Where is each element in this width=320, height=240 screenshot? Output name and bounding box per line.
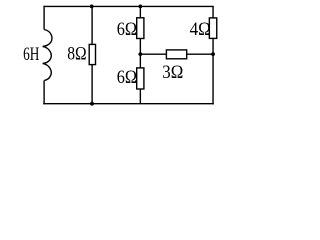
resistor R 3-ohm body — [166, 50, 186, 59]
svg-text:6Ω: 6Ω — [117, 19, 137, 40]
wire 8-ohm branch top — [91, 6, 93, 44]
svg-text:8Ω: 8Ω — [67, 44, 86, 65]
wire top rail — [43, 5, 213, 7]
wire 6-ohm branch bottom — [139, 89, 141, 104]
junction dot top at 8-ohm branch — [90, 5, 94, 9]
wire left branch top — [43, 6, 45, 30]
resistor R 4-ohm body — [209, 18, 216, 39]
wire left branch bottom — [43, 80, 45, 104]
junction dot bottom at 8-ohm branch — [90, 102, 94, 106]
wire middle rail right stub — [187, 53, 213, 55]
svg-text:4Ω: 4Ω — [190, 19, 211, 40]
svg-text:3Ω: 3Ω — [162, 62, 183, 83]
wire right rail bottom — [212, 38, 214, 104]
inductor 6H — [43, 30, 52, 81]
wire bottom rail — [43, 103, 214, 105]
wire 6-ohm branch top — [139, 6, 141, 17]
junction dot top at 6-ohm branch — [138, 5, 142, 9]
wire 6-ohm branch middle — [139, 39, 141, 68]
wire 8-ohm branch bottom — [91, 65, 93, 104]
svg-text:6H: 6H — [23, 44, 39, 65]
junction dot middle at right rail — [211, 52, 215, 56]
wire right rail top — [212, 6, 214, 18]
svg-text:6Ω: 6Ω — [117, 67, 137, 88]
resistor R 6-ohm bottom body — [137, 68, 144, 89]
junction dot middle at 6-ohm branch — [138, 52, 142, 56]
resistor R 6-ohm top body — [137, 18, 144, 39]
resistor R 8-ohm body — [89, 44, 95, 64]
wire middle rail left stub — [140, 53, 166, 55]
